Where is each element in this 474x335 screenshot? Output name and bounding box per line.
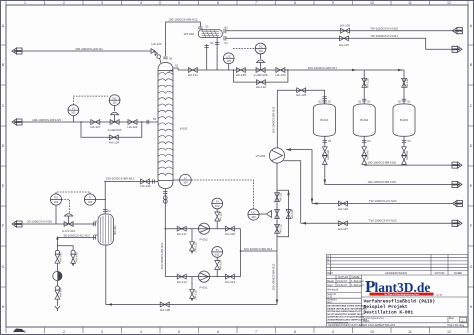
pipe drain branch right xyxy=(57,246,73,250)
svg-text:TW-1000CS-KV-N22: TW-1000CS-KV-N22 xyxy=(369,219,397,223)
valve HA-127 xyxy=(91,120,100,125)
valve HA-130 xyxy=(256,80,265,85)
svg-text:A-CV-001: A-CV-001 xyxy=(62,229,75,233)
signal LI-LIC2 dashed xyxy=(192,180,254,209)
valve HA-147 xyxy=(339,221,348,226)
tank top nozzles xyxy=(322,96,406,104)
sight glass on bottoms line xyxy=(164,189,166,277)
svg-text:HA-111: HA-111 xyxy=(279,192,283,201)
condenser right nozzles xyxy=(224,29,226,33)
svg-text:REV: REV xyxy=(327,271,333,275)
drain funnel xyxy=(55,299,60,311)
svg-text:A-HW-001: A-HW-001 xyxy=(108,128,122,132)
valve HA-146 xyxy=(339,201,348,206)
svg-text:AENDERUNGEN: AENDERUNGEN xyxy=(385,271,407,275)
svg-text:C: C xyxy=(327,261,329,265)
pipe product line y70 xyxy=(217,69,404,71)
pipe 100-1000CS-BR-N14 xyxy=(241,250,277,252)
svg-text:HA-134: HA-134 xyxy=(290,209,294,219)
svg-text:12: 12 xyxy=(447,1,451,5)
pump P-002 xyxy=(198,223,209,234)
svg-text:3: 3 xyxy=(101,1,103,5)
valve HA-131 xyxy=(188,68,197,73)
pipe VT drain stack xyxy=(276,163,278,304)
svg-text:HA-115: HA-115 xyxy=(193,242,197,251)
off-page connector cw1 right xyxy=(453,27,463,34)
pipe drain bypass HA-134 xyxy=(277,190,289,236)
tank B-002 xyxy=(353,104,375,136)
svg-text:Plant 3D.dwg: Plant 3D.dwg xyxy=(448,323,465,327)
svg-text:HA-141: HA-141 xyxy=(405,150,409,160)
svg-text:HA-125: HA-125 xyxy=(296,93,307,97)
instrument FI xyxy=(68,105,79,122)
valve HA-122 angle at column top xyxy=(151,49,161,63)
svg-text:105: 105 xyxy=(227,59,232,63)
svg-text:HA-142: HA-142 xyxy=(59,252,63,262)
condenser bottom nozzle N2 xyxy=(216,38,218,70)
svg-text:A. Beimann: A. Beimann xyxy=(351,279,365,283)
svg-text:FI: FI xyxy=(72,106,75,110)
svg-text:100-1000CS-BR-N18: 100-1000CS-BR-N18 xyxy=(367,160,396,164)
svg-text:50-1000CS-SC-N17: 50-1000CS-SC-N17 xyxy=(64,234,91,238)
instrument LI column bottom xyxy=(173,174,191,186)
svg-text:(kg): (kg) xyxy=(327,300,332,304)
pipe reboiler return line y181.5 xyxy=(105,181,158,183)
svg-text:HA-114: HA-114 xyxy=(177,280,187,284)
svg-text:HA-137: HA-137 xyxy=(339,43,350,47)
logo / title dividers xyxy=(362,296,469,298)
svg-text:H: H xyxy=(2,305,5,309)
svg-text:HA-146: HA-146 xyxy=(338,207,349,211)
svg-text:2: 2 xyxy=(63,1,65,5)
pipe P-002 branch xyxy=(165,228,240,230)
valve HA-118 xyxy=(225,226,234,231)
condenser WT-002 xyxy=(198,30,222,38)
svg-text:TIC: TIC xyxy=(259,45,263,49)
svg-text:PI: PI xyxy=(216,248,219,252)
pipe reboiler feed drop xyxy=(104,182,106,215)
svg-text:TW-1000CS-KV-N21: TW-1000CS-KV-N21 xyxy=(370,34,398,38)
valve HA-125 xyxy=(297,88,306,93)
valve pair right drain xyxy=(71,250,76,263)
svg-text:Bearb.: Bearb. xyxy=(327,279,335,283)
pipe 50-1000CS-D-N16 steam line xyxy=(22,223,96,225)
svg-text:100-1000CS-DR3-N5: 100-1000CS-DR3-N5 xyxy=(32,118,61,122)
pipe 100-1000CS-BR-N18 header xyxy=(364,164,452,166)
svg-text:P-002: P-002 xyxy=(199,238,207,242)
off-page connector cw2 right xyxy=(452,46,462,53)
pump dosing bottom-left xyxy=(53,271,62,280)
svg-text:lant3D.de: lant3D.de xyxy=(375,280,431,295)
svg-text:HA-128: HA-128 xyxy=(236,73,247,77)
svg-text:HA-131: HA-131 xyxy=(188,73,199,77)
stamp in bottom margin xyxy=(13,329,25,333)
drain below P-002 suction xyxy=(190,229,195,254)
svg-text:LIC: LIC xyxy=(251,211,255,215)
valve tank3 feed xyxy=(402,78,407,87)
svg-text:HA-119: HA-119 xyxy=(219,212,223,221)
svg-text:ner.de: ner.de xyxy=(436,294,443,296)
svg-text:50-1000CS-D-N16: 50-1000CS-D-N16 xyxy=(27,219,52,223)
svg-text:100-1000CS-BR-N19: 100-1000CS-BR-N19 xyxy=(367,180,396,184)
svg-text:Verfahrensfließbild (P&ID): Verfahrensfließbild (P&ID) xyxy=(364,299,436,305)
svg-text:4: 4 xyxy=(140,1,142,5)
svg-text:HA-126: HA-126 xyxy=(365,78,369,88)
instrument PI P-002 xyxy=(212,198,223,209)
svg-text:A-HW-106: A-HW-106 xyxy=(254,73,268,77)
svg-text:NAME: NAME xyxy=(351,275,359,279)
svg-text:103: 103 xyxy=(88,200,93,204)
svg-text:200-2000CS-HW-N1: 200-2000CS-HW-N1 xyxy=(75,47,103,51)
svg-text:101: 101 xyxy=(112,101,117,105)
pipe TW-1000CS-KV-N20 cooling water line 1 xyxy=(226,30,454,32)
instrument LIC xyxy=(223,53,234,70)
column V-001 xyxy=(158,63,173,189)
pipe VT inlet from right xyxy=(286,150,312,204)
off-page connector feed top-left xyxy=(12,47,22,54)
svg-text:Blatt: Blatt xyxy=(449,317,454,320)
svg-text:HA-118: HA-118 xyxy=(225,232,235,236)
off-page connector kv-n24 xyxy=(453,200,463,207)
svg-text:Beispiel Projekt: Beispiel Projekt xyxy=(364,304,408,310)
svg-text:Ihr Pipe & Plant Engineering P: Ihr Pipe & Plant Engineering Part xyxy=(384,293,419,296)
svg-text:HA-121: HA-121 xyxy=(127,125,138,129)
svg-text:HA-136: HA-136 xyxy=(340,24,351,28)
tank2 bottom valves xyxy=(362,145,367,165)
svg-text:TIC: TIC xyxy=(54,196,58,200)
svg-text:8: 8 xyxy=(294,330,296,334)
svg-text:HA-122: HA-122 xyxy=(151,42,162,46)
svg-text:100-1000CS-BR-N13: 100-1000CS-BR-N13 xyxy=(271,263,275,290)
valve tank2 feed xyxy=(362,78,367,87)
svg-text:TW-1000CS-KV-N20: TW-1000CS-KV-N20 xyxy=(370,26,398,30)
valve HA-128 xyxy=(236,68,245,73)
tank B-001 xyxy=(313,104,335,136)
off-page connector steam left xyxy=(12,220,22,227)
svg-text:12: 12 xyxy=(447,330,451,334)
svg-text:LI: LI xyxy=(184,176,186,180)
svg-text:Destillation K-001: Destillation K-001 xyxy=(364,309,414,315)
pipe feed bypass xyxy=(81,122,142,137)
signal FI-FIC dashed xyxy=(73,96,108,105)
svg-text:2: 2 xyxy=(63,330,65,334)
svg-text:100-1000CS-BR-N14: 100-1000CS-BR-N14 xyxy=(244,247,273,251)
pipe TW-1000CS-KV-N21 cooling water line 2 xyxy=(226,38,453,49)
svg-text:D: D xyxy=(2,144,5,148)
svg-text:7: 7 xyxy=(255,1,257,5)
pipe 100-1000CS-BR-N19 header xyxy=(325,182,452,185)
valve HA-113 xyxy=(225,274,234,279)
pipe 100-1000CS-DR3-N5 feed line xyxy=(22,121,158,123)
svg-text:100-1000CS-BR-N15: 100-1000CS-BR-N15 xyxy=(271,106,275,133)
svg-text:100-1000CS-HW-N12: 100-1000CS-HW-N12 xyxy=(168,18,198,22)
valve stack v2 controlled xyxy=(275,210,280,219)
svg-text:8: 8 xyxy=(294,1,296,5)
pipe P-002 discharge xyxy=(240,229,242,277)
svg-text:HA-117: HA-117 xyxy=(177,232,187,236)
svg-text:HA-147: HA-147 xyxy=(338,227,349,231)
svg-text:MITTEILUNG IHRES INHALTS IST: MITTEILUNG IHRES INHALTS IST xyxy=(327,310,362,313)
logo Plant3D.de xyxy=(365,277,443,297)
signal TIC-TI dashed xyxy=(56,192,90,194)
svg-text:WT-001: WT-001 xyxy=(113,225,117,235)
svg-text:D: D xyxy=(470,144,473,148)
svg-text:5: 5 xyxy=(178,330,180,334)
svg-text:DIESER UNTERLAGE VER WENDUNG: DIESER UNTERLAGE VER WENDUNG xyxy=(327,307,367,310)
flow arrows on product line xyxy=(352,69,357,72)
junction dots xyxy=(233,69,235,71)
svg-text:104: 104 xyxy=(258,49,263,53)
instrument TIC xyxy=(255,43,266,54)
arrow at drain stack bottom corner xyxy=(276,300,279,305)
pump P-001 xyxy=(198,271,209,282)
svg-text:DATUM: DATUM xyxy=(435,271,445,275)
valve HA-138 xyxy=(160,302,169,307)
signal LIC-TIC dashed xyxy=(233,48,255,50)
svg-text:AENDERUNGEN NUR UEBER CAD-ARBE: AENDERUNGEN NUR UEBER CAD-ARBEITSPLATZ xyxy=(328,323,395,327)
tank bottom nozzles xyxy=(323,136,407,145)
reflux nozzle into dome xyxy=(173,68,178,70)
control valve A-CV-001 xyxy=(64,214,73,227)
svg-text:A. Beimann: A. Beimann xyxy=(351,283,365,287)
svg-text:9: 9 xyxy=(332,1,334,5)
drain below P-001 suction xyxy=(190,277,195,302)
feed nozzle N3 flange xyxy=(147,120,149,124)
svg-text:104: 104 xyxy=(183,181,188,185)
bottom cells texts xyxy=(328,317,465,327)
svg-text:G: G xyxy=(2,265,5,269)
svg-text:NAME: NAME xyxy=(454,271,462,275)
valve HA-134 xyxy=(286,210,291,219)
svg-text:10: 10 xyxy=(370,1,374,5)
valve HA-137 xyxy=(340,36,349,41)
instrument TIC steam line xyxy=(50,194,61,224)
svg-text:10: 10 xyxy=(370,330,374,334)
svg-text:G: G xyxy=(470,265,473,269)
copyright paragraph xyxy=(327,305,368,325)
tank B-003 xyxy=(393,104,415,136)
tank3 bottom valves xyxy=(402,145,407,165)
pipe VT outlet down xyxy=(284,161,301,224)
svg-text:100-1000CS-BR-N12: 100-1000CS-BR-N12 xyxy=(106,176,135,180)
svg-text:LIC: LIC xyxy=(227,55,231,59)
instrument FIC xyxy=(109,95,120,106)
svg-text:H: H xyxy=(470,305,473,309)
tank1 bottom valves xyxy=(322,145,327,182)
valves below dosing pump xyxy=(56,281,58,286)
svg-text:HA-123: HA-123 xyxy=(140,184,151,188)
svg-text:HA-120: HA-120 xyxy=(219,260,223,270)
pipe VT riser to tank feed xyxy=(277,90,324,148)
valve HA-124 xyxy=(110,135,119,140)
svg-text:TW-1000CS-KV-N24: TW-1000CS-KV-N24 xyxy=(369,199,397,203)
svg-text:WT-002: WT-002 xyxy=(184,32,195,36)
blower VT-002 xyxy=(269,148,284,163)
svg-text:Werkstoff:: Werkstoff: xyxy=(327,288,339,292)
revision table texts xyxy=(327,254,462,304)
pipe 50-1000CS-SC-N17 condensate line xyxy=(57,238,96,251)
pipe reboiler bottom drain xyxy=(106,245,277,305)
svg-text:1: 1 xyxy=(24,1,26,5)
svg-text:HA-116: HA-116 xyxy=(193,290,197,299)
valve HA-114 xyxy=(177,274,186,279)
condenser aux drain xyxy=(206,44,208,70)
svg-text:101: 101 xyxy=(71,111,76,115)
off-page connector br-n18 xyxy=(452,162,462,169)
valve HA-121 xyxy=(128,120,137,125)
svg-text:100-1000CS-BR-N13: 100-1000CS-BR-N13 xyxy=(160,242,164,269)
svg-text:HA-138: HA-138 xyxy=(160,308,171,312)
svg-text:HA-139: HA-139 xyxy=(326,150,330,160)
svg-text:102: 102 xyxy=(215,204,220,208)
off-page connector kv-n22 xyxy=(452,220,462,227)
rotated labels xyxy=(59,78,409,300)
valve HA-136 xyxy=(341,28,350,33)
svg-text:V-001: V-001 xyxy=(180,127,188,131)
svg-text:4: 4 xyxy=(140,330,142,334)
pipe bypass HA-130 xyxy=(233,70,288,82)
control valve A-HW-001 xyxy=(110,106,119,125)
pipe TW-1000CS-KV-N24 xyxy=(312,203,452,205)
instrument TI reboiler xyxy=(84,194,105,205)
left info panel xyxy=(361,275,363,327)
svg-text:3: 3 xyxy=(101,330,103,334)
svg-text:Gepr.: Gepr. xyxy=(327,283,334,287)
svg-text:TI: TI xyxy=(89,196,92,200)
pipe 200-2000CS-HW-N1 top feed line xyxy=(22,50,151,52)
off-page connector feed left xyxy=(12,118,22,125)
svg-text:HA-113: HA-113 xyxy=(225,280,235,284)
revision table lines xyxy=(327,257,469,259)
svg-text:PI: PI xyxy=(216,200,219,204)
svg-text:HA-143: HA-143 xyxy=(74,252,78,262)
svg-text:FIC: FIC xyxy=(113,96,117,100)
svg-text:C: C xyxy=(2,104,5,108)
svg-text:7: 7 xyxy=(255,330,257,334)
svg-text:102: 102 xyxy=(54,200,59,204)
svg-text:HA-144: HA-144 xyxy=(59,287,63,297)
svg-text:11: 11 xyxy=(408,330,412,334)
pipe TW-1000CS-KV-N22 xyxy=(301,222,452,224)
svg-text:HA-124: HA-124 xyxy=(109,141,120,145)
svg-text:HA-132: HA-132 xyxy=(405,78,409,88)
valve pair left drain xyxy=(55,250,60,263)
svg-text:AUSDRUECKLICH ZUGESTANDEN.: AUSDRUECKLICH ZUGESTANDEN. xyxy=(327,316,364,319)
actuator link to drain valve xyxy=(259,211,271,218)
svg-text:DIE WEITERGABE SOWIE VERVIELF.: DIE WEITERGABE SOWIE VERVIELF. xyxy=(327,305,366,308)
svg-text:HA-140: HA-140 xyxy=(365,150,369,160)
svg-text:101: 101 xyxy=(215,252,220,256)
svg-text:11: 11 xyxy=(408,1,412,5)
svg-text:P-001: P-001 xyxy=(199,285,207,289)
svg-text:21.04.07: 21.04.07 xyxy=(337,283,348,287)
svg-text:HA-127: HA-127 xyxy=(90,125,101,129)
svg-text:B-003: B-003 xyxy=(400,118,408,122)
instrument PI P-001 xyxy=(212,247,223,258)
svg-text:6: 6 xyxy=(217,1,219,5)
valve stack v1 xyxy=(275,193,280,202)
svg-text:VT-002: VT-002 xyxy=(256,154,266,158)
signal TIC to A-CV-001 dashed xyxy=(62,200,70,214)
pipe vapor line column top xyxy=(166,22,201,56)
control valve A-HW on product line xyxy=(256,54,265,73)
svg-text:100-1000CS-HW-N17: 100-1000CS-HW-N17 xyxy=(308,66,338,70)
valve stack v3 xyxy=(275,224,280,233)
svg-text:5: 5 xyxy=(178,1,180,5)
svg-text:HA-129: HA-129 xyxy=(275,73,286,77)
valve HA-117 xyxy=(177,226,186,231)
svg-text:103: 103 xyxy=(251,215,256,219)
svg-text:9: 9 xyxy=(332,330,334,334)
instrument LIC2 xyxy=(248,209,259,220)
pipe P-001 branch xyxy=(165,276,240,278)
svg-text:C: C xyxy=(470,104,473,108)
svg-text:HA-112: HA-112 xyxy=(279,224,283,233)
reboiler WT-001 xyxy=(98,214,114,245)
svg-text:NICHT GESTATTET SOWEIT NICHT: NICHT GESTATTET SOWEIT NICHT xyxy=(327,313,364,316)
title block outline xyxy=(327,255,469,328)
tank feed drops from product line xyxy=(363,70,365,96)
title texts xyxy=(364,299,436,316)
pipe reflux line to column xyxy=(178,69,217,71)
valve HA-123 xyxy=(141,179,150,184)
off-page connector br-n19 xyxy=(452,181,462,188)
svg-text:6: 6 xyxy=(217,330,219,334)
svg-text:21.04.07: 21.04.07 xyxy=(337,279,348,283)
svg-text:B-002: B-002 xyxy=(360,118,368,122)
svg-text:B-001: B-001 xyxy=(320,118,328,122)
svg-text:HA-130: HA-130 xyxy=(256,85,267,89)
svg-text:DATUM: DATUM xyxy=(338,275,348,279)
valve HA-129 xyxy=(276,68,285,73)
